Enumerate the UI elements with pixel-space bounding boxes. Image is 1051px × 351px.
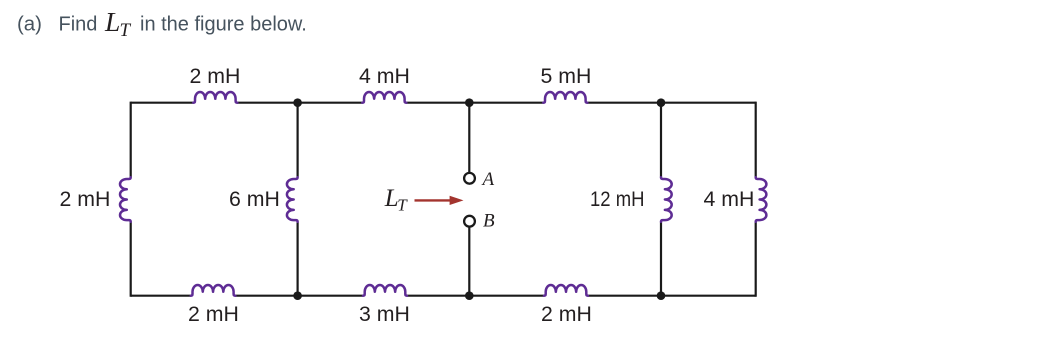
wire terminal branch upper bbox=[468, 103, 470, 173]
svg-text:4 mH: 4 mH bbox=[704, 187, 755, 211]
junction node bottom at 6mH branch bbox=[293, 291, 302, 300]
inductor L10 4 mH right edge bbox=[756, 177, 767, 221]
svg-text:6 mH: 6 mH bbox=[229, 187, 280, 211]
svg-text:L: L bbox=[104, 6, 120, 37]
svg-text:T: T bbox=[120, 20, 132, 41]
svg-text:(a): (a) bbox=[17, 14, 42, 36]
wire terminal branch lower bbox=[468, 227, 470, 295]
wire bottom between 2mH and 3mH bbox=[235, 295, 363, 297]
wire left edge lower bbox=[130, 222, 132, 297]
svg-text:2 mH: 2 mH bbox=[541, 302, 592, 326]
wire left edge upper bbox=[130, 102, 132, 178]
wire bottom between 3mH and 2mH bbox=[407, 295, 544, 297]
inductor L8 6 mH bbox=[287, 177, 298, 221]
inductor L2 4 mH top bbox=[362, 92, 406, 103]
wire right edge upper bbox=[755, 102, 757, 178]
svg-text:3 mH: 3 mH bbox=[359, 302, 410, 326]
wire branch 6mH lower bbox=[297, 222, 299, 296]
inductor L3 5 mH top bbox=[543, 92, 587, 103]
wire top between 2mH and 4mH bbox=[237, 102, 362, 104]
svg-text:4 mH: 4 mH bbox=[359, 64, 410, 88]
terminal B bbox=[464, 216, 475, 227]
wire top between 4mH and 5mH bbox=[406, 102, 543, 104]
wire right edge lower bbox=[755, 222, 757, 297]
svg-text:in the figure below.: in the figure below. bbox=[140, 14, 307, 36]
inductor L7 2 mH left edge bbox=[120, 177, 131, 221]
inductor L1 2 mH top bbox=[193, 92, 237, 103]
svg-text:5 mH: 5 mH bbox=[541, 64, 592, 88]
svg-text:2 mH: 2 mH bbox=[60, 187, 111, 211]
svg-text:2 mH: 2 mH bbox=[188, 302, 239, 326]
junction node bottom at 12mH branch bbox=[657, 291, 666, 300]
wire branch 6mH upper bbox=[297, 103, 299, 178]
junction node top at terminal branch bbox=[465, 98, 474, 107]
wire bottom left segment bbox=[131, 295, 191, 297]
junction node top at 12mH branch bbox=[657, 98, 666, 107]
wire bottom right segment bbox=[588, 295, 756, 297]
wire branch 12mH upper bbox=[660, 103, 662, 178]
junction node top at 6mH branch bbox=[293, 98, 302, 107]
svg-text:B: B bbox=[483, 211, 495, 232]
inductor L4 2 mH bottom bbox=[191, 285, 235, 296]
svg-text:A: A bbox=[481, 169, 495, 190]
junction node bottom at terminal branch bbox=[465, 291, 474, 300]
svg-text:Find: Find bbox=[59, 14, 98, 36]
inductor L6 2 mH bottom right bbox=[544, 285, 588, 296]
inductor L5 3 mH bottom bbox=[363, 285, 407, 296]
svg-text:12 mH: 12 mH bbox=[590, 187, 645, 211]
wire branch 12mH lower bbox=[660, 222, 662, 296]
arrow LT bbox=[415, 196, 464, 205]
inductor L9 12 mH bbox=[661, 177, 672, 221]
svg-text:T: T bbox=[397, 195, 408, 214]
wire top right segment bbox=[587, 102, 755, 104]
terminal A bbox=[464, 173, 475, 184]
wire top left segment bbox=[131, 102, 194, 104]
svg-text:2 mH: 2 mH bbox=[190, 64, 241, 88]
